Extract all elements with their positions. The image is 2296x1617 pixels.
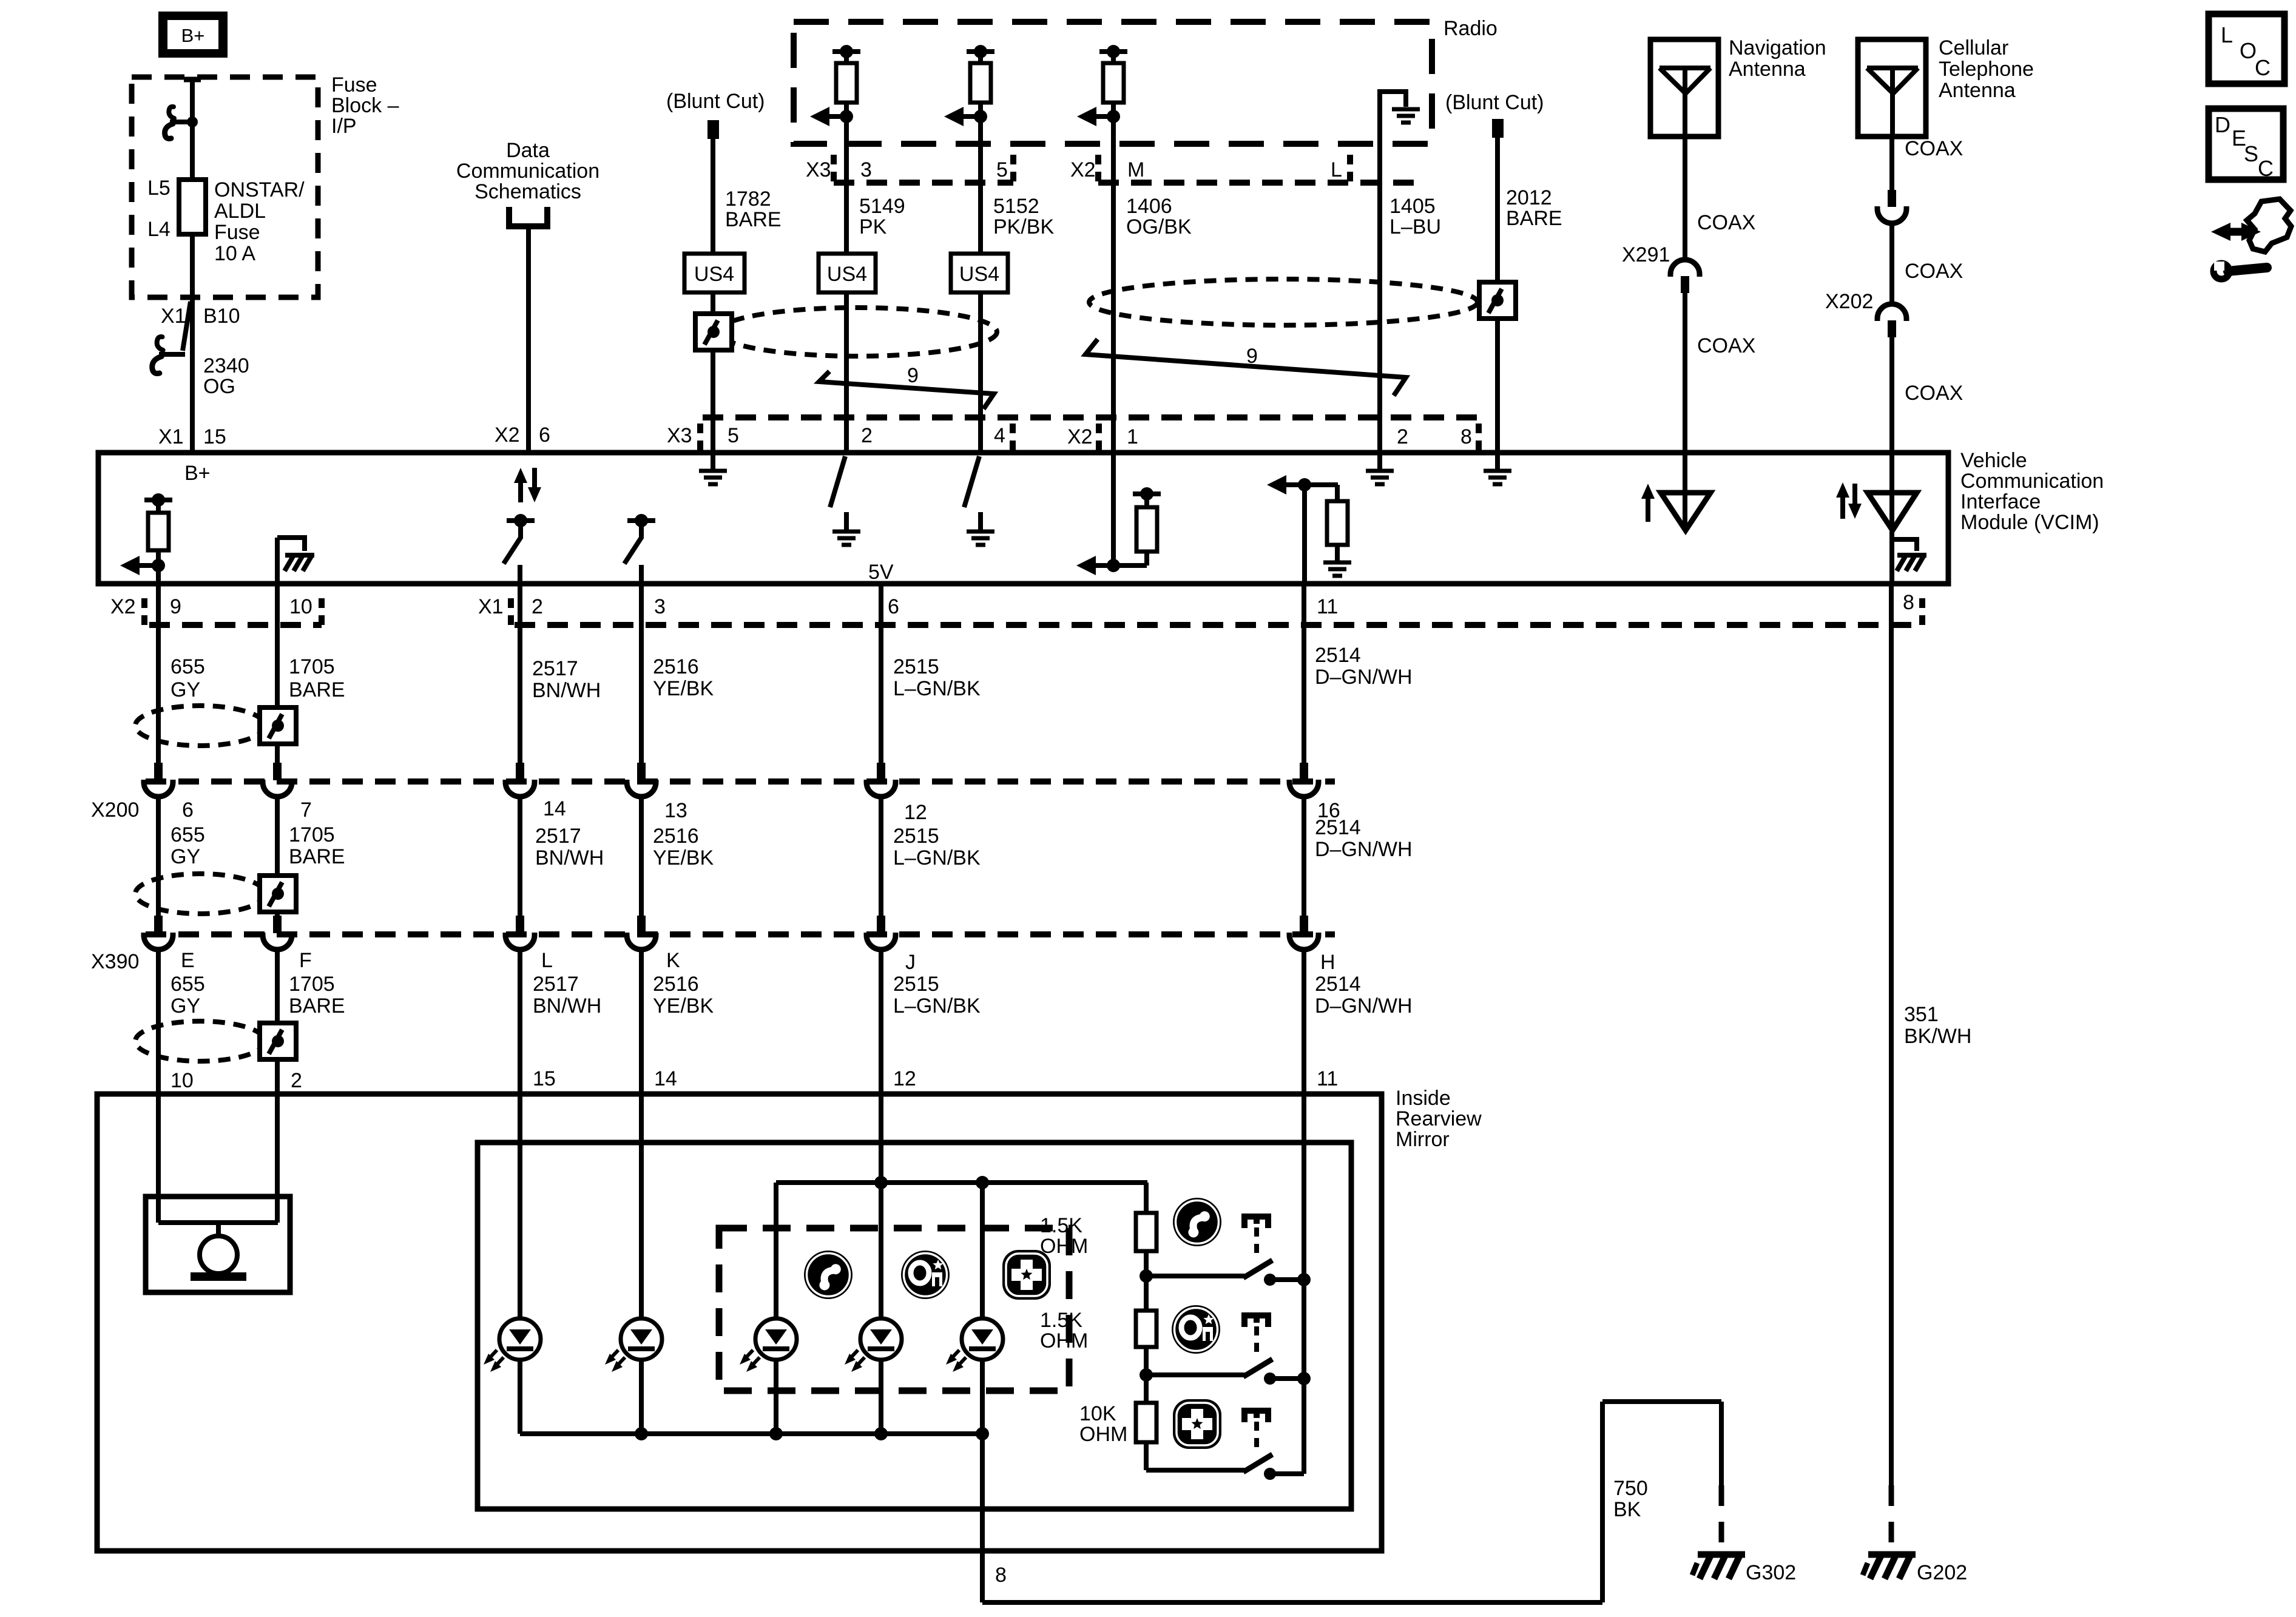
svg-text:2514: 2514	[1315, 816, 1361, 839]
svg-text:L–BU: L–BU	[1389, 215, 1441, 238]
svg-text:OHM: OHM	[1040, 1235, 1088, 1258]
svg-text:Rearview: Rearview	[1396, 1107, 1482, 1130]
svg-text:(Blunt Cut): (Blunt Cut)	[1445, 91, 1544, 114]
VCIM internal switch (pin 2)	[507, 518, 535, 523]
navigation antenna symbol	[1660, 68, 1710, 93]
svg-text:8: 8	[995, 1564, 1007, 1587]
svg-text:ALDL: ALDL	[214, 200, 266, 223]
svg-text:Telephone: Telephone	[1939, 58, 2034, 81]
svg-text:X390: X390	[91, 950, 139, 973]
terminal lead hook in fuse block	[170, 120, 192, 124]
switch common return wire (pin 8)	[980, 1434, 985, 1602]
svg-text:B+: B+	[181, 25, 205, 46]
svg-text:750: 750	[1613, 1477, 1648, 1500]
svg-text:OG/BK: OG/BK	[1126, 215, 1192, 238]
svg-text:X3: X3	[806, 158, 831, 181]
svg-text:OG: OG	[203, 375, 235, 398]
svg-text:Navigation: Navigation	[1729, 36, 1826, 59]
svg-text:X2: X2	[1070, 158, 1096, 181]
svg-text:11: 11	[1317, 1067, 1338, 1090]
Vehicle Communication Interface Module VCIM box	[98, 453, 1948, 584]
momentary switch (OnStar)	[1146, 1372, 1244, 1377]
svg-text:14: 14	[654, 1067, 677, 1090]
svg-text:2516: 2516	[653, 655, 699, 678]
svg-text:X200: X200	[91, 798, 139, 822]
svg-text:ONSTAR/: ONSTAR/	[214, 178, 305, 201]
twisted pair mark 9 (wires 5149/5152)	[819, 371, 994, 409]
svg-text:BARE: BARE	[289, 994, 345, 1018]
svg-text:2340: 2340	[203, 354, 249, 377]
wire 2516 YE/BK segment 1	[639, 584, 644, 763]
svg-text:Data: Data	[506, 139, 550, 162]
svg-text:COAX: COAX	[1697, 211, 1755, 234]
radio output driver resistor + arrow (wire 5152)	[967, 49, 994, 54]
svg-text:655: 655	[171, 973, 205, 996]
svg-text:X2: X2	[110, 595, 136, 618]
svg-text:Radio: Radio	[1443, 17, 1497, 40]
svg-text:BARE: BARE	[1506, 207, 1562, 230]
svg-text:X1: X1	[158, 425, 184, 448]
VCIM internal switch to ground (pin 4 / wire 5152)	[964, 456, 979, 507]
connector row below VCIM X1 2 3 6 11 8	[515, 622, 1922, 628]
svg-text:6: 6	[888, 595, 899, 618]
svg-text:Antenna: Antenna	[1729, 58, 1806, 81]
svg-text:11: 11	[1317, 595, 1338, 618]
svg-text:1705: 1705	[289, 973, 335, 996]
svg-text:US4: US4	[959, 263, 999, 286]
VCIM internal chassis ground (pin 10)	[275, 538, 280, 584]
grommet (wire 1782)	[695, 314, 732, 350]
svg-text:G302: G302	[1746, 1561, 1796, 1584]
svg-text:BK: BK	[1613, 1498, 1641, 1521]
svg-text:COAX: COAX	[1905, 137, 1963, 160]
VCIM internal 5V pull-up resistor (pin 1 / wire 1406)	[1111, 455, 1116, 565]
svg-text:I/P: I/P	[331, 115, 357, 138]
coax navigation antenna to X291	[1683, 137, 1687, 261]
shield ellipse row 3 (655/1705)	[135, 1021, 265, 1061]
microphone box	[146, 1197, 290, 1292]
svg-text:L–GN/BK: L–GN/BK	[893, 677, 981, 700]
svg-text:F: F	[299, 949, 312, 972]
svg-text:4: 4	[994, 424, 1005, 447]
splice US4 (wire 5152)	[951, 254, 1008, 292]
svg-text:2515: 2515	[893, 973, 939, 996]
wire 1782 BARE	[711, 139, 715, 254]
svg-text:BARE: BARE	[289, 678, 345, 701]
svg-text:Schematics: Schematics	[474, 180, 581, 203]
svg-text:2515: 2515	[893, 825, 939, 848]
svg-text:13: 13	[664, 799, 687, 822]
svg-text:8: 8	[1903, 591, 1914, 614]
svg-text:Inside: Inside	[1396, 1087, 1451, 1110]
DESC reference box	[2209, 109, 2283, 180]
svg-text:BARE: BARE	[289, 845, 345, 868]
svg-text:2514: 2514	[1315, 973, 1361, 996]
wire 655 GY segment 2	[156, 796, 161, 916]
svg-text:6: 6	[182, 798, 194, 822]
svg-text:12: 12	[893, 1067, 916, 1090]
svg-text:YE/BK: YE/BK	[653, 846, 714, 869]
VCIM bidirectional arrows (pin X1-2 data)	[518, 480, 523, 502]
svg-text:X1: X1	[478, 595, 504, 618]
wire 2517 BN/WH segment 1	[518, 584, 522, 763]
svg-text:COAX: COAX	[1697, 334, 1755, 357]
svg-text:15: 15	[203, 425, 226, 448]
svg-text:C: C	[2258, 156, 2274, 181]
svg-text:Antenna: Antenna	[1939, 79, 2016, 102]
svg-text:PK/BK: PK/BK	[993, 215, 1054, 238]
connector X390 dashed row	[146, 931, 1335, 937]
svg-text:L–GN/BK: L–GN/BK	[893, 846, 981, 869]
svg-text:9: 9	[907, 364, 919, 387]
svg-text:BN/WH: BN/WH	[533, 994, 601, 1018]
LED indicator (wire 2516)	[621, 1318, 662, 1360]
svg-text:2: 2	[1397, 425, 1408, 448]
svg-text:L: L	[1331, 158, 1342, 181]
LOC reference box	[2209, 14, 2284, 84]
svg-text:10K: 10K	[1079, 1402, 1116, 1425]
radio output driver resistor + arrow (wire 1406)	[1099, 49, 1127, 54]
svg-text:2: 2	[532, 595, 543, 618]
svg-text:8: 8	[1460, 425, 1472, 448]
svg-text:US4: US4	[694, 263, 734, 286]
svg-text:655: 655	[171, 823, 205, 846]
svg-text:L: L	[2221, 22, 2233, 47]
svg-text:2517: 2517	[533, 973, 579, 996]
svg-text:5: 5	[728, 424, 739, 447]
terminal lead hook below fuse block	[159, 352, 185, 357]
svg-text:6: 6	[539, 424, 550, 447]
svg-text:Communication: Communication	[456, 160, 599, 183]
svg-text:Mirror: Mirror	[1396, 1128, 1450, 1151]
resistor chain feed	[1144, 1183, 1149, 1213]
svg-text:10: 10	[289, 595, 312, 618]
wire 2517 BN/WH segment 2	[518, 796, 522, 916]
ground G302	[1698, 1551, 1745, 1558]
wire 2514 D-GN/WH segment 1	[1302, 584, 1306, 763]
radio output driver resistor + arrow (wire 5149)	[832, 49, 860, 54]
wire to LED phone	[774, 1183, 778, 1320]
radio connector row X3/X2 dashed line	[834, 180, 1013, 186]
svg-text:COAX: COAX	[1905, 382, 1963, 405]
svg-text:L: L	[541, 949, 553, 972]
svg-text:2012: 2012	[1506, 186, 1552, 209]
svg-text:(Blunt Cut): (Blunt Cut)	[666, 90, 765, 113]
LED return bus	[520, 1431, 982, 1436]
fuse ONSTAR/ALDL 10A	[179, 180, 206, 234]
ground G202	[1889, 1485, 1894, 1551]
svg-text:Interface: Interface	[1960, 490, 2041, 513]
svg-text:10: 10	[171, 1069, 194, 1092]
svg-text:5152: 5152	[993, 195, 1039, 218]
schematic reference bracket	[509, 207, 547, 226]
VCIM internal resistor to ground (pin 11 / wire 2514)	[1283, 482, 1338, 487]
wire 2517 BN/WH segment 3	[518, 949, 522, 1320]
svg-text:1782: 1782	[725, 187, 771, 211]
icon OnStar (switch)	[1172, 1305, 1220, 1354]
grommet row 2 (wire 1705)	[260, 876, 296, 912]
splice US4 (wire 5149)	[819, 254, 876, 292]
VCIM internal earth ground (pin X3-5 / wire 1782)	[711, 455, 715, 470]
svg-text:X291: X291	[1622, 243, 1670, 266]
wire 655 GY segment 1	[156, 584, 161, 763]
svg-text:5149: 5149	[859, 195, 905, 218]
svg-text:351: 351	[1904, 1003, 1939, 1026]
inline coax connector (cellular)	[1888, 190, 1896, 207]
connector row below VCIM X2 9 10	[149, 622, 322, 628]
svg-text:1.5K: 1.5K	[1040, 1309, 1082, 1332]
VCIM internal arrow (pin 9)	[136, 563, 158, 568]
LED indicator (OnStar)	[860, 1318, 902, 1360]
wire 1705 BARE segment 3	[275, 949, 280, 1023]
svg-text:BN/WH: BN/WH	[532, 679, 601, 702]
svg-text:9: 9	[1246, 345, 1258, 368]
svg-text:C: C	[2255, 55, 2271, 80]
wire 2012 BARE	[1495, 138, 1500, 282]
svg-text:1405: 1405	[1389, 195, 1436, 218]
svg-text:D–GN/WH: D–GN/WH	[1315, 666, 1413, 689]
wire B+ feed into fuse block	[184, 77, 201, 83]
svg-text:E: E	[181, 949, 195, 972]
svg-text:D–GN/WH: D–GN/WH	[1315, 994, 1413, 1018]
shield ellipse row 1 (655/1705)	[135, 706, 265, 746]
svg-text:D–GN/WH: D–GN/WH	[1315, 838, 1413, 861]
VCIM internal switch to ground (pin 2 / wire 5149)	[830, 456, 845, 507]
svg-text:M: M	[1127, 158, 1144, 181]
wire 1406 OG/BK	[1111, 116, 1116, 453]
svg-text:10 A: 10 A	[214, 242, 255, 265]
svg-text:2: 2	[861, 424, 873, 447]
wire 655 GY segment 3	[156, 949, 161, 1223]
inside rearview mirror box	[97, 1094, 1382, 1551]
svg-text:1.5K: 1.5K	[1040, 1214, 1082, 1237]
svg-text:3: 3	[654, 595, 666, 618]
svg-text:2517: 2517	[532, 657, 578, 680]
icon telephone (button cluster)	[804, 1251, 853, 1299]
wire 5149 PK	[844, 116, 849, 254]
svg-text:2: 2	[291, 1069, 302, 1092]
svg-text:2516: 2516	[653, 825, 699, 848]
wire 2514 D-GN/WH segment 2	[1302, 796, 1306, 916]
svg-text:J: J	[905, 951, 916, 974]
radio dashed box	[794, 22, 1432, 144]
svg-text:BARE: BARE	[725, 208, 782, 231]
wire fuse to VCIM pin X1-15	[190, 234, 195, 453]
svg-text:Fuse: Fuse	[331, 73, 377, 96]
svg-text:Vehicle: Vehicle	[1960, 449, 2027, 472]
VCIM internal earth ground (pin 2 / wire 1405)	[1377, 455, 1382, 470]
svg-text:L4: L4	[147, 218, 171, 241]
svg-text:1705: 1705	[289, 823, 335, 846]
dashed button cluster box	[719, 1228, 1069, 1391]
LED indicator (wire 2517)	[499, 1318, 541, 1360]
svg-text:1: 1	[1127, 425, 1138, 448]
icon medical cross (button cluster)	[1002, 1250, 1051, 1300]
svg-text:L5: L5	[147, 177, 171, 200]
svg-text:YE/BK: YE/BK	[653, 994, 714, 1018]
momentary switch (medical)	[1146, 1468, 1244, 1473]
splice US4 (wire 1782)	[684, 254, 745, 292]
VCIM internal resistor (pin 9)	[144, 498, 172, 502]
svg-text:14: 14	[543, 797, 566, 820]
svg-text:15: 15	[533, 1067, 556, 1090]
wire 2515 L-GN/BK segment 3	[879, 949, 883, 1320]
svg-text:GY: GY	[171, 845, 200, 868]
svg-text:X2: X2	[1067, 425, 1093, 448]
svg-text:2514: 2514	[1315, 644, 1361, 667]
fuse block dashed box Fuse Block - I/P	[132, 77, 318, 297]
connector X200 dashed row	[146, 778, 1335, 785]
svg-text:S: S	[2244, 141, 2258, 166]
connector X200 terminals	[154, 763, 163, 780]
svg-text:COAX: COAX	[1905, 260, 1963, 283]
svg-text:1406: 1406	[1126, 195, 1172, 218]
svg-text:BN/WH: BN/WH	[535, 846, 604, 869]
grommet (wire 2012)	[1479, 282, 1516, 319]
wire 1405 L-BU	[1377, 92, 1382, 453]
twisted pair mark 9 (wires 1406/1405)	[1086, 339, 1406, 396]
svg-text:Block –: Block –	[331, 94, 399, 117]
svg-text:2515: 2515	[893, 655, 939, 678]
svg-text:OHM: OHM	[1079, 1423, 1127, 1446]
svg-text:Fuse: Fuse	[214, 221, 260, 244]
svg-text:H: H	[1320, 951, 1335, 974]
VCIM internal switch (pin 3)	[627, 518, 655, 523]
svg-text:X1: X1	[161, 305, 186, 328]
wire 2514 D-GN/WH segment 3	[1302, 949, 1306, 1474]
power feed B+ box	[158, 12, 228, 58]
wire 5152 PK/BK	[978, 116, 983, 254]
svg-text:X3: X3	[667, 424, 692, 447]
svg-text:Module (VCIM): Module (VCIM)	[1960, 511, 2099, 534]
svg-text:PK: PK	[859, 215, 887, 238]
wire 1705 BARE segment 2	[275, 796, 280, 876]
svg-text:L–GN/BK: L–GN/BK	[893, 994, 981, 1018]
svg-text:9: 9	[170, 595, 181, 618]
svg-text:12: 12	[904, 801, 927, 824]
momentary switch (phone)	[1146, 1274, 1244, 1278]
microphone symbol	[158, 1220, 278, 1225]
VCIM internal earth ground (pin 8 / wire 2012)	[1495, 455, 1500, 470]
cellular antenna symbol	[1867, 68, 1918, 93]
svg-text:3: 3	[860, 158, 872, 181]
svg-text:G202: G202	[1917, 1561, 1967, 1584]
svg-text:YE/BK: YE/BK	[653, 677, 714, 700]
wire 2516 YE/BK segment 2	[639, 796, 644, 916]
icon medical cross (switch)	[1173, 1399, 1221, 1449]
shield ellipse (wires 1406/1405/2012)	[1089, 279, 1477, 325]
wire 2516 YE/BK segment 3	[639, 949, 644, 1320]
LED indicator (phone)	[755, 1318, 797, 1360]
svg-text:O: O	[2240, 38, 2257, 63]
wire to LED medical	[980, 1183, 985, 1320]
svg-text:GY: GY	[171, 994, 200, 1018]
VCIM internal antenna symbol (cellular)	[1840, 495, 1845, 519]
svg-text:1705: 1705	[289, 655, 335, 678]
wire 351 BK/WH	[1889, 584, 1894, 1485]
svg-text:2517: 2517	[535, 825, 581, 848]
svg-text:X202: X202	[1825, 290, 1873, 313]
svg-text:OHM: OHM	[1040, 1329, 1088, 1352]
svg-text:K: K	[666, 949, 680, 972]
shield ellipse (wire 1782 to 5152)	[718, 308, 997, 356]
wire 2515 L-GN/BK segment 1	[879, 584, 883, 763]
icon OnStar (button cluster)	[901, 1251, 950, 1299]
wire 2515 L-GN/BK segment 2	[879, 796, 883, 916]
mirror inner circuit box	[478, 1143, 1351, 1509]
connector row 2 dashed line X3 5 2 4 / X2 1 2 8	[703, 414, 1479, 420]
VCIM internal chassis ground (cellular)	[1892, 539, 1917, 551]
LED indicator (medical)	[962, 1318, 1003, 1360]
connector X1 pin B10 marks	[183, 302, 191, 351]
service information icon	[2228, 228, 2244, 236]
svg-text:Cellular: Cellular	[1939, 36, 2008, 59]
svg-text:X2: X2	[495, 424, 520, 447]
grommet row 1 (wire 1705)	[260, 707, 296, 744]
svg-text:7: 7	[300, 798, 312, 822]
svg-text:655: 655	[171, 655, 205, 678]
svg-text:GY: GY	[171, 678, 200, 701]
svg-text:B+: B+	[184, 462, 211, 485]
svg-text:5: 5	[996, 158, 1008, 181]
wire data comm to VCIM pin X2-6	[526, 226, 531, 453]
icon telephone (switch)	[1173, 1198, 1221, 1246]
VCIM internal antenna symbol (navigation)	[1646, 496, 1650, 522]
LED supply bus	[776, 1180, 1147, 1185]
wire 1705 BARE segment 1	[275, 584, 280, 707]
radio internal ground (wire 1405)	[1377, 89, 1382, 92]
svg-text:2516: 2516	[653, 973, 699, 996]
svg-text:Communication: Communication	[1960, 470, 2104, 493]
svg-text:D: D	[2215, 112, 2230, 137]
shield ellipse row 2 (655/1705)	[135, 874, 265, 914]
svg-text:BK/WH: BK/WH	[1904, 1025, 1971, 1048]
coax cellular antenna	[1889, 137, 1894, 190]
navigation antenna box	[1650, 39, 1718, 137]
svg-text:US4: US4	[827, 263, 867, 286]
svg-text:5V: 5V	[868, 561, 894, 584]
grommet row 3 (wire 1705)	[260, 1023, 296, 1059]
cellular telephone antenna box	[1858, 39, 1926, 137]
connector X390 terminals	[154, 916, 163, 933]
svg-text:B10: B10	[203, 305, 240, 328]
